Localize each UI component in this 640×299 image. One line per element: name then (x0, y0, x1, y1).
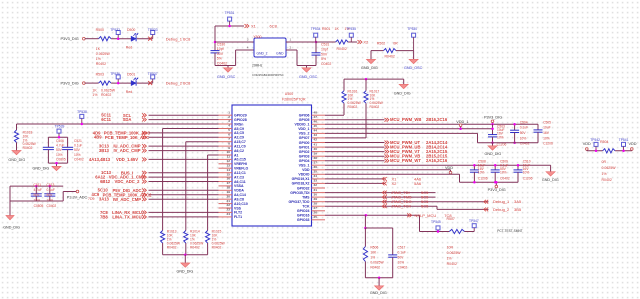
resistor R1017 (365, 79, 367, 91)
pin 47 GPIO5 (right) (312, 119, 326, 121)
net label MCU_PWM_UT (385, 141, 387, 145)
svg-text:50V: 50V (217, 52, 224, 56)
svg-text:A5,C9: A5,C9 (234, 127, 244, 131)
wire net PCB_TEMP_10K_ADC (149, 136, 219, 138)
net label MCU_PWM_WT (385, 159, 387, 163)
svg-text:P3V3_DIG: P3V3_DIG (488, 188, 506, 192)
pin 48 GPIO6 (right) (312, 114, 326, 116)
wire pin 40 MCU_PWM_VT (325, 151, 385, 153)
wire C530 to ground (214, 53, 216, 66)
svg-text:34: 34 (314, 174, 318, 178)
wire to R501 (316, 41, 336, 43)
svg-text:7D9: 7D9 (88, 197, 94, 201)
svg-text:R503: R503 (96, 73, 104, 77)
svg-text:0.1uF: 0.1uF (74, 144, 82, 148)
svg-text:A9,C8: A9,C8 (234, 197, 244, 201)
wire net IV_ADC_CMP (149, 150, 219, 152)
svg-text:0.0625W: 0.0625W (447, 251, 462, 255)
pin 43 GPIO7 (right) (312, 137, 326, 139)
svg-text:R0402: R0402 (385, 54, 395, 58)
svg-text:0R: 0R (393, 41, 398, 45)
pin 7 A15,C7 (left) (219, 141, 233, 143)
svg-text:R504: R504 (600, 140, 608, 144)
svg-text:C0402: C0402 (500, 177, 510, 181)
svg-text:IW_ADC_CMP: IW_ADC_CMP (113, 197, 141, 202)
wire vref cap bottom rail (48, 162, 67, 164)
svg-text:FLT2: FLT2 (234, 211, 242, 215)
wire pin 35 VDDIO rail (325, 173, 460, 175)
wire net IW_ADC_CMP (149, 198, 219, 200)
wire pin 39 MCU_PWM_VB (325, 155, 385, 157)
capacitor C504 (514, 124, 516, 130)
svg-text:R501: R501 (322, 27, 330, 31)
pin 35 VDDIO (right) (312, 173, 326, 175)
svg-text:C1206: C1206 (543, 142, 553, 146)
net label X2 (mcu side) (382, 182, 384, 186)
no-ERC cross (148, 37, 152, 41)
svg-text:TCK: TCK (302, 204, 310, 208)
svg-text:10%: 10% (500, 171, 507, 175)
svg-text:43: 43 (314, 133, 318, 137)
svg-text:R507: R507 (447, 217, 455, 221)
wire pin 28 JTAG_TCK (325, 205, 437, 207)
pin 46 VDDIO_1 (right) (312, 123, 326, 125)
svg-text:6C8: 6C8 (183, 81, 191, 86)
svg-text:GND_DIG: GND_DIG (3, 225, 20, 229)
wire pin 44 VSS_2 to cap gnd rail (325, 132, 478, 134)
svg-text:GND_OSC: GND_OSC (299, 75, 318, 79)
resistor R500 (99, 37, 112, 41)
svg-text:Debug_1: Debug_1 (493, 199, 510, 204)
svg-text:6C8: 6C8 (270, 24, 278, 29)
ground GND_DIG under R1018 (12, 151, 21, 155)
svg-text:10%: 10% (34, 198, 41, 202)
svg-text:A6,C11: A6,C11 (234, 180, 246, 184)
wire net PCB_TEMP_100K_ADC2 (149, 194, 219, 196)
svg-text:A2,C9: A2,C9 (234, 136, 244, 140)
ground GND_OSC left (227, 66, 229, 68)
pin 21 A10,C10 (left) (219, 203, 233, 205)
svg-text:R0402: R0402 (101, 93, 111, 97)
svg-text:VREFHI: VREFHI (234, 162, 247, 166)
net label JTAG_TCK (382, 204, 384, 208)
svg-text:R500: R500 (96, 28, 104, 32)
crystal Y500 (254, 38, 286, 57)
wire pin 48 GPIO6 to R1016 (325, 114, 344, 116)
wire block bottom (365, 277, 392, 279)
svg-text:1%: 1% (96, 57, 101, 61)
svg-text:22: 22 (227, 203, 231, 207)
svg-text:5%: 5% (321, 57, 326, 61)
wire pin 38 MCU_PWM_WT (325, 160, 385, 162)
ground GND_DIG second bank (550, 165, 552, 172)
wire pin 37 VSS_1 rail (325, 164, 551, 166)
svg-text:GPIO37,TDO: GPIO37,TDO (288, 200, 309, 204)
svg-text:C0402: C0402 (398, 265, 408, 269)
ground GND_DIG cap bank (492, 143, 494, 146)
svg-text:23: 23 (227, 208, 231, 212)
svg-text:VSS_2: VSS_2 (299, 132, 310, 136)
testpoint TP533 (151, 31, 155, 35)
svg-text:TP535: TP535 (346, 27, 356, 31)
svg-text:39: 39 (314, 151, 318, 155)
svg-text:10K: 10K (370, 250, 377, 254)
pin 1 GPIO29 (left) (219, 114, 233, 116)
pin 30 TMS (right) (312, 196, 326, 198)
wire net SCL (149, 114, 219, 116)
svg-text:14: 14 (227, 168, 231, 172)
LED D501 (131, 81, 136, 86)
testpoint TP534 (314, 33, 318, 37)
no-ERC cross (148, 81, 152, 85)
svg-text:45: 45 (314, 124, 318, 128)
testpoint TP530 (412, 33, 416, 37)
pin 22 VSS (left) (219, 207, 233, 209)
svg-text:R0402: R0402 (337, 47, 347, 51)
capacitor C503 (492, 124, 494, 134)
ground GND_DIG pulldowns (184, 255, 186, 263)
svg-text:28: 28 (314, 201, 318, 205)
capacitor C517 (392, 228, 394, 255)
resistor R501 (336, 40, 349, 44)
svg-text:3B5: 3B5 (514, 207, 522, 212)
resistor R1013 (161, 231, 165, 244)
wire net PCB_TEMP_100K_ADC (149, 132, 219, 134)
net label X1 (mcu side) (382, 177, 384, 181)
wire (85, 82, 99, 84)
svg-text:VDDIO_1: VDDIO_1 (295, 123, 310, 127)
svg-text:R502: R502 (377, 41, 385, 45)
svg-text:GPIO18,X2: GPIO18,X2 (292, 182, 310, 186)
svg-text:21: 21 (227, 199, 231, 203)
net label JTAG_TMS (382, 195, 384, 199)
wire C531 to ground (315, 55, 317, 65)
svg-text:6C8: 6C8 (183, 36, 191, 41)
svg-text:C0402: C0402 (321, 62, 331, 66)
svg-text:10pf: 10pf (217, 47, 224, 51)
svg-text:1: 1 (290, 37, 292, 41)
svg-text:GPIO24: GPIO24 (297, 209, 310, 213)
svg-text:A7,C3: A7,C3 (234, 175, 244, 179)
pin 27 GPIO24 (right) (312, 210, 326, 212)
svg-text:50V: 50V (74, 148, 81, 152)
pin 11 A0,C15 (left) (219, 158, 233, 160)
wire pin 4 to R1013 (163, 128, 219, 130)
svg-text:GND_DIG: GND_DIG (361, 66, 378, 70)
svg-text:10%: 10% (398, 260, 405, 264)
svg-text:13: 13 (227, 163, 231, 167)
svg-text:44: 44 (314, 129, 318, 133)
wire net SDA (149, 119, 219, 121)
testpoint TP531 (228, 17, 232, 21)
capacitor C513 (49, 186, 51, 194)
svg-text:10: 10 (227, 150, 231, 154)
svg-text:U500: U500 (285, 92, 293, 96)
svg-text:VDDA: VDDA (234, 189, 244, 193)
svg-text:10%: 10% (74, 153, 81, 157)
svg-text:VSSA: VSSA (234, 184, 244, 188)
svg-text:42: 42 (314, 138, 318, 142)
pin 42 GPIO0 (right) (312, 142, 326, 144)
svg-text:25: 25 (314, 215, 318, 219)
pin 26 GPIO16 (right) (312, 214, 326, 216)
svg-text:30: 30 (314, 192, 318, 196)
net label MCU_PWM_WB (385, 118, 387, 122)
pin 3 XRSn (left) (219, 123, 233, 125)
pin 33 GPIO18,X2 (right) (312, 182, 326, 184)
svg-text:GPIO33: GPIO33 (297, 218, 310, 222)
pin 16 A6,C11 (left) (219, 181, 233, 183)
svg-text:TP533: TP533 (148, 28, 158, 32)
wire riser to C530 (214, 26, 216, 51)
svg-text:A6,C2: A6,C2 (234, 149, 244, 153)
pin 4 A5,C9 (left) (219, 128, 233, 130)
svg-text:41: 41 (314, 142, 318, 146)
svg-text:GPIO0: GPIO0 (299, 141, 310, 145)
svg-text:3: 3 (247, 37, 249, 41)
ground GND_OSC under TP530 (413, 51, 415, 60)
svg-text:1K: 1K (96, 47, 101, 51)
pin 9 A6,C2 (left) (219, 150, 233, 152)
net label X1 (245, 24, 247, 28)
power port P3.3V_ADC (76, 190, 79, 193)
svg-text:3: 3 (228, 119, 230, 123)
svg-text:36: 36 (314, 165, 318, 169)
pin 17 VSSA (left) (219, 185, 233, 187)
svg-text:C506: C506 (56, 139, 64, 143)
wire (137, 82, 153, 84)
svg-text:VSS: VSS (234, 206, 242, 210)
svg-text:50V: 50V (56, 148, 63, 152)
resistor R1018 (16, 124, 18, 130)
svg-text:24: 24 (227, 212, 231, 216)
svg-text:15: 15 (227, 172, 231, 176)
svg-text:VDD_1: VDD_1 (298, 127, 309, 131)
svg-text:JTAG_TCK: JTAG_TCK (391, 204, 411, 209)
capacitor C521 (67, 137, 69, 147)
svg-text:GPIO7: GPIO7 (299, 136, 310, 140)
svg-text:32: 32 (314, 183, 318, 187)
svg-text:GPIO16: GPIO16 (297, 214, 310, 218)
wire NSLP to TP545/R507 (420, 231, 450, 233)
svg-text:R0402: R0402 (447, 262, 457, 266)
svg-text:GND_DIG: GND_DIG (177, 269, 194, 273)
svg-text:NSLP_MCU: NSLP_MCU (415, 213, 437, 218)
pin 10 A1 (left) (219, 154, 233, 156)
svg-text:A0,C15: A0,C15 (234, 158, 246, 162)
svg-text:A10,C10: A10,C10 (234, 202, 248, 206)
capacitor C508 (473, 165, 475, 170)
svg-text:GND_DIG: GND_DIG (370, 291, 387, 295)
capacitor C531 (315, 42, 317, 53)
svg-text:1%: 1% (447, 257, 452, 261)
svg-text:P3.3V_ADC: P3.3V_ADC (67, 195, 88, 199)
wire pin 30 JTAG_TMS (325, 196, 436, 198)
pin 39 GPIO3 (right) (312, 155, 326, 157)
net label NSLP_MCU (407, 213, 409, 217)
svg-text:GPIO3: GPIO3 (299, 154, 310, 158)
svg-text:C0402: C0402 (217, 61, 227, 65)
svg-text:10uF: 10uF (543, 126, 551, 130)
svg-text:C1206: C1206 (478, 177, 488, 181)
LED D500 (131, 36, 136, 41)
svg-text:A11,C0: A11,C0 (234, 144, 246, 148)
wire pin 7 to R1014 (186, 141, 219, 143)
pin 20 A9,C8 (left) (219, 198, 233, 200)
svg-text:26: 26 (314, 211, 318, 215)
wire pin 26 NSLP_MCU (325, 214, 420, 216)
svg-text:GPIO5: GPIO5 (299, 118, 310, 122)
svg-text:5A6: 5A6 (414, 181, 422, 186)
svg-text:PCT-TEST-SMNT: PCT-TEST-SMNT (497, 229, 522, 233)
svg-text:C1206: C1206 (497, 143, 507, 147)
pin 41 GPIO1 (right) (312, 146, 326, 148)
svg-text:TP536: TP536 (110, 72, 120, 76)
svg-text:F280025PTQR: F280025PTQR (282, 97, 306, 101)
pin 25 GPIO33 (right) (312, 219, 326, 221)
testpoint TP539 (57, 129, 61, 133)
svg-text:Debug_1: Debug_1 (166, 36, 183, 41)
svg-text:10%: 10% (520, 136, 527, 140)
net label MCU_PWM_UB (385, 145, 387, 149)
resistor R506 (365, 227, 392, 229)
svg-text:A3,C5: A3,C5 (234, 131, 244, 135)
svg-text:5C5: 5C5 (421, 204, 429, 209)
svg-text:TP545: TP545 (431, 220, 441, 224)
net label JTAG_TDO (382, 200, 384, 204)
svg-text:Debug_2: Debug_2 (166, 81, 183, 86)
testpoint TP532 (116, 31, 120, 35)
svg-text:35: 35 (314, 170, 318, 174)
wire to R504 (586, 149, 588, 152)
pin 18 VDDA (left) (219, 189, 233, 191)
wire adc cap bottom rail (10, 200, 63, 202)
svg-text:C513: C513 (47, 183, 55, 187)
pin 38 GPIO4 (right) (312, 160, 326, 162)
wire vref cap rail (48, 136, 67, 138)
svg-text:GND_DIG: GND_DIG (394, 92, 411, 96)
svg-text:GND_DIG: GND_DIG (33, 166, 50, 170)
ground GND_DIG under vref caps (56, 163, 58, 166)
svg-text:C530: C530 (217, 42, 225, 46)
svg-text:3A13: 3A13 (99, 197, 110, 202)
pin 6 A2,C9 (left) (219, 136, 233, 138)
pin 32 GPIO32 (right) (312, 187, 326, 189)
svg-text:C517: C517 (398, 245, 406, 249)
svg-text:1%: 1% (602, 172, 607, 176)
svg-text:VSS_1: VSS_1 (299, 163, 310, 167)
svg-text:C504: C504 (520, 120, 528, 124)
svg-text:GPIO32: GPIO32 (297, 186, 310, 190)
svg-text:19: 19 (227, 190, 231, 194)
svg-text:20MHz: 20MHz (252, 64, 263, 68)
ground GND_OSC right (306, 66, 308, 68)
svg-text:A4,C14: A4,C14 (234, 193, 246, 197)
capacitor C530 (211, 50, 220, 52)
svg-text:6: 6 (228, 133, 230, 137)
svg-text:1%: 1% (370, 255, 375, 259)
svg-text:50V: 50V (34, 193, 41, 197)
net label X2 (358, 40, 360, 44)
capacitor C506 (47, 137, 49, 147)
resistor R1016 (343, 79, 345, 91)
svg-text:6B12: 6B12 (100, 179, 111, 184)
wire pin 29 JTAG_TDO (325, 201, 489, 203)
svg-text:C505: C505 (543, 120, 551, 124)
svg-text:VDD: VDD (629, 142, 637, 146)
svg-text:TMS: TMS (302, 195, 310, 199)
svg-text:40: 40 (314, 147, 318, 151)
op IC U500 F280025PTQR body (232, 105, 312, 226)
testpoint TP535 (349, 33, 353, 37)
pin 2 GPIO28 (left) (219, 119, 233, 121)
svg-text:27: 27 (314, 206, 318, 210)
net label MCU_PWM_VT (385, 150, 387, 154)
wire net VDC_ADC_2 (149, 181, 219, 183)
resistor R503 (99, 81, 112, 85)
wire net P5V_DIG_ADC (149, 189, 219, 191)
wire adc cap top rail (10, 185, 63, 187)
svg-text:48: 48 (314, 110, 318, 114)
pin 44 VSS_2 (right) (312, 132, 326, 134)
pin 28 TCK (right) (312, 205, 326, 207)
svg-text:1: 1 (228, 110, 230, 114)
svg-text:4: 4 (228, 124, 230, 128)
svg-text:17: 17 (227, 181, 231, 185)
svg-text:GPIO4: GPIO4 (299, 159, 310, 163)
svg-text:P3V3_DIG: P3V3_DIG (484, 115, 502, 119)
svg-text:1%: 1% (92, 93, 97, 97)
svg-text:50V: 50V (321, 52, 328, 56)
svg-text:R0402: R0402 (348, 105, 358, 109)
svg-text:R0402: R0402 (602, 178, 612, 182)
testpoint TP537 (151, 75, 155, 79)
svg-text:A15,C7: A15,C7 (234, 140, 246, 144)
svg-text:P3V3_DIG: P3V3_DIG (61, 82, 79, 86)
svg-text:C0402: C0402 (47, 204, 57, 208)
pin 40 GPIO2 (right) (312, 151, 326, 153)
wire pin 31 JTAG_TDI (325, 192, 436, 194)
svg-text:VDD: VDD (302, 168, 310, 172)
svg-text:1K: 1K (92, 88, 97, 92)
ground GND_DIG left of R502 (370, 51, 372, 60)
svg-text:R0402: R0402 (190, 245, 200, 249)
pin 14 A12,C1 (left) (219, 172, 233, 174)
wire net LINA_TX_MCU (149, 216, 219, 218)
svg-text:GND_DIG: GND_DIG (485, 152, 502, 156)
svg-text:R0402: R0402 (212, 245, 222, 249)
testpoint TP541 (622, 142, 626, 146)
wire (137, 38, 153, 40)
testpoint TP542 (594, 142, 598, 146)
resistor R507 (449, 229, 464, 233)
wire net IU_ADC_CMP (149, 145, 219, 147)
testpoint TP547 (472, 224, 476, 228)
wire R1016 to pin 48 (343, 103, 345, 115)
svg-text:47: 47 (314, 115, 318, 119)
svg-text:29: 29 (314, 197, 318, 201)
svg-text:C0402: C0402 (74, 157, 84, 161)
svg-text:50V: 50V (47, 193, 54, 197)
svg-text:GND: GND (276, 52, 284, 56)
svg-text:GND_DIG: GND_DIG (542, 178, 559, 182)
svg-text:GPIO6: GPIO6 (299, 113, 310, 117)
testpoint TP536 (116, 75, 120, 79)
pin 8 A11,C0 (left) (219, 145, 233, 147)
svg-text:C531: C531 (321, 43, 329, 47)
ground GND_DIG under R506 block (378, 278, 380, 286)
svg-text:VDD: VDD (445, 166, 453, 170)
